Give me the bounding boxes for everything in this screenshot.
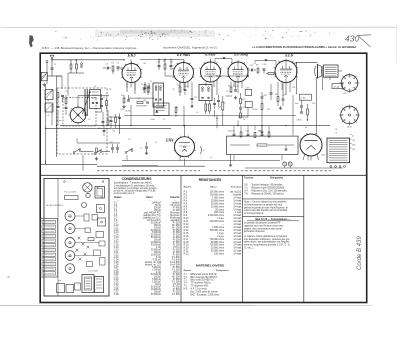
loudspeaker — [317, 64, 319, 79]
right block border — [303, 176, 305, 303]
switch resistor — [96, 148, 98, 152]
svg-text:C32: C32 — [259, 131, 262, 133]
svg-text:C.38: C.38 — [114, 294, 120, 296]
wire OT to socket area — [329, 77, 331, 80]
svg-text:R15: R15 — [228, 131, 231, 133]
svg-text:parleur reçoivent de notre Hau: parleur reçoivent de notre Haut Régence,… — [244, 206, 288, 209]
svg-text:PL accordéon: PL accordéon — [65, 192, 77, 194]
IF can 2 top view — [98, 218, 106, 226]
tube pin drop wires — [126, 83, 128, 89]
svg-text:1 meg.: 1 meg. — [217, 233, 224, 235]
svg-text:CM: CM — [143, 100, 146, 102]
tuning gang top view — [83, 183, 92, 192]
svg-text:grâphe, dont commutation pick-: grâphe, dont commutation pick-up par — [244, 227, 282, 230]
tube EF9 IF amplifier — [174, 63, 194, 83]
svg-text:C9: C9 — [103, 97, 105, 99]
top bus antenna to EK3 — [69, 59, 124, 61]
wire switch down — [82, 155, 84, 171]
svg-text:1/4 watt: 1/4 watt — [233, 202, 241, 205]
svg-text:Corde B 439: Corde B 439 — [357, 236, 363, 270]
svg-text:R9: R9 — [256, 65, 258, 67]
AVC diode wire — [204, 75, 248, 77]
heater drop wires — [126, 155, 128, 161]
junction dots — [130, 125, 131, 126]
svg-text:1/2 watt: 1/2 watt — [233, 250, 241, 253]
bottom left caps cluster — [110, 119, 113, 121]
svg-text:R.21: R.21 — [184, 251, 190, 253]
svg-text:EF9mq: EF9mq — [233, 52, 248, 57]
valve socket top view M25 — [341, 106, 359, 124]
svg-text:C29: C29 — [312, 103, 315, 105]
margin speck — [8, 277, 10, 278]
svg-text:La position de parcours (rotat: La position de parcours (rotation) PF — [244, 222, 281, 225]
svg-text:C31: C31 — [246, 131, 249, 133]
svg-text:au sol ée , la facture d'équip: au sol ée , la facture d'équip pour F et… — [114, 189, 157, 192]
svg-text:EL6: EL6 — [284, 53, 294, 58]
svg-text:EF9bis: EF9bis — [176, 52, 190, 57]
tube socket EM4 top — [65, 211, 75, 221]
svg-text:O., etc...).: O., etc...). — [244, 246, 254, 249]
svg-text:R.14: R.14 — [184, 230, 190, 232]
mains terminals — [330, 166, 332, 168]
socket heater box — [332, 84, 343, 89]
svg-text:T.F moyenne 455: T.F moyenne 455 — [191, 286, 209, 288]
pickup caps — [111, 147, 114, 149]
speaker chassis — [95, 277, 104, 293]
svg-text:1/4 watt: 1/4 watt — [233, 208, 241, 211]
small box 1 — [57, 284, 65, 293]
svg-text:Désignation: Désignation — [216, 269, 229, 272]
svg-text:C1: C1 — [54, 64, 56, 66]
oscillator coil cans hatched — [45, 90, 53, 100]
svg-text:Réponse du 50%A1, 230 périod.: Réponse du 50%A1, 230 périod. — [252, 192, 285, 195]
EL6 grid leak — [261, 96, 264, 98]
svg-text:1/4 watt: 1/4 watt — [233, 197, 241, 200]
svg-text:perforation observée.: perforation observée. — [244, 230, 266, 233]
wire EL6 anode to output transformer — [293, 62, 297, 65]
connector strip outline — [40, 219, 58, 278]
svg-text:Puissance: Puissance — [231, 187, 243, 189]
cluster below oscillator — [102, 120, 105, 122]
svg-text:700.000 ohms: 700.000 ohms — [210, 245, 225, 247]
wave switch 3 — [125, 152, 127, 154]
svg-text:R1: R1 — [112, 63, 114, 65]
svg-text:50.000 ohms: 50.000 ohms — [211, 203, 225, 205]
vertical EL6 down — [285, 82, 287, 95]
tuner block outline — [57, 88, 107, 154]
svg-text:1/4 watt: 1/4 watt — [233, 226, 241, 229]
tube socket EF9b top — [65, 264, 75, 274]
svg-text:Spécifications : T annulée aux: Spécifications : T annulée aux tolér/C — [114, 182, 152, 185]
parts below osc — [103, 129, 106, 131]
long vertical left 2 — [56, 76, 58, 157]
table divider 1 — [180, 176, 182, 303]
svg-text:0,1: 0,1 — [138, 98, 141, 100]
svg-text:P 1.500: P 1.500 — [172, 294, 180, 296]
svg-text:trois disposition inférieures,: trois disposition inférieures, verticaux… — [244, 238, 290, 241]
top link EF9b to EL6 — [255, 60, 276, 62]
IF transformer T4 — [153, 83, 164, 107]
vertical right 2 — [321, 66, 323, 90]
svg-text:tel correspondant à.: tel correspondant à. — [244, 212, 264, 215]
svg-text:CP 60: CP 60 — [297, 120, 302, 122]
svg-text:L4: L4 — [47, 115, 49, 117]
ground bus left — [41, 163, 98, 165]
ground antenna — [43, 83, 45, 85]
svg-text:R.B.C. — 148, Boulevard Agency: R.B.C. — 148, Boulevard Agency, 1er — Do… — [42, 46, 137, 50]
svg-text:1 électrolytiques D, périmètre: 1 électrolytiques D, périmètres, 50 rési… — [114, 184, 155, 187]
svg-text:130: 130 — [352, 145, 355, 147]
svg-text:7 6: 7 6 — [335, 133, 338, 135]
EL6 cathode cluster — [277, 97, 279, 102]
svg-text:0,5: 0,5 — [196, 112, 199, 114]
svg-text:« LA DOCUMENTATION DU RADIOELE: « LA DOCUMENTATION DU RADIOELECTRICIEN-G… — [252, 45, 356, 49]
svg-text:Bloc d'accord 252-455-P.O.: Bloc d'accord 252-455-P.O. — [191, 276, 219, 279]
svg-text:1/4 watt: 1/4 watt — [233, 223, 241, 226]
svg-text:100.000 ohms: 100.000 ohms — [210, 195, 225, 197]
svg-text:Pu: Pu — [210, 157, 212, 159]
svg-text:50.000 pF: 50.000 pF — [151, 294, 162, 296]
svg-text:RESISTANCES: RESISTANCES — [199, 178, 221, 182]
osc components left — [57, 93, 59, 98]
svg-text:C11: C11 — [112, 131, 115, 133]
left column resistor chain — [65, 99, 67, 104]
svg-text:Valeur: Valeur — [210, 187, 217, 189]
extra wires left — [61, 76, 63, 89]
wire EL6 screen — [296, 63, 298, 94]
svg-text:4V 2A: 4V 2A — [334, 85, 340, 88]
page top edge — [1, 26, 397, 28]
wave switch 1 — [73, 152, 75, 154]
svg-text:MC ACCORDEON: MC ACCORDEON — [47, 204, 64, 207]
svg-text:430: 430 — [345, 34, 359, 44]
coupling boxes — [245, 89, 252, 95]
svg-text:R.12: R.12 — [184, 224, 190, 226]
brace right of EM4 — [201, 146, 202, 154]
svg-text:30.000 ohms: 30.000 ohms — [211, 200, 225, 202]
left vertical wire 3 — [51, 104, 53, 126]
wave switch 2 — [94, 153, 96, 155]
svg-text:1/4 watt: 1/4 watt — [233, 253, 241, 256]
svg-text:MATERIEL DIVERS: MATERIEL DIVERS — [196, 264, 224, 268]
svg-text:5.000: 5.000 — [150, 119, 155, 121]
svg-text:R14: R14 — [121, 109, 124, 111]
svg-text:L1: L1 — [70, 60, 72, 62]
svg-text:0v: 0v — [352, 136, 354, 138]
svg-text:C24: C24 — [250, 65, 253, 67]
svg-text:C27: C27 — [282, 95, 285, 97]
svg-text:R.17: R.17 — [184, 239, 190, 241]
top bus EK3 to EF9 — [140, 59, 184, 61]
svg-text:C20: C20 — [184, 86, 187, 88]
svg-text:R12: R12 — [275, 94, 278, 96]
svg-text:1.000 ohms: 1.000 ohms — [212, 227, 225, 229]
svg-text:H.P. 21 cm excit.: H.P. 21 cm excit. — [191, 288, 208, 291]
main frame — [40, 53, 367, 302]
svg-text:R.20: R.20 — [184, 248, 190, 250]
ground power box — [230, 163, 232, 165]
svg-text:2.000.000 ohms: 2.000.000 ohms — [208, 215, 225, 217]
svg-text:Touches: Touches — [244, 177, 254, 179]
svg-text:EAB1: EAB1 — [204, 52, 216, 57]
ground EK3 — [123, 105, 125, 107]
svg-text:R.18: R.18 — [184, 242, 190, 244]
tuning capacitor symbol — [84, 89, 86, 116]
svg-text:EM4: EM4 — [68, 216, 72, 218]
svg-text:EXC - Excitation 1.250 ohms: EXC - Excitation 1.250 ohms — [191, 293, 221, 296]
svg-text:1/4 watt: 1/4 watt — [233, 199, 241, 202]
EK3 cathode resistor — [123, 98, 125, 103]
svg-text:R.13: R.13 — [184, 227, 190, 229]
tone capacitor cluster — [270, 92, 273, 94]
svg-text:700.000 ohms: 700.000 ohms — [210, 239, 225, 241]
small box 3 — [75, 283, 81, 290]
screen cluster between EK3 and EF9 — [158, 64, 161, 66]
IF trimmer box — [154, 103, 169, 116]
mid vertical drops — [216, 115, 218, 128]
svg-text:R7: R7 — [228, 86, 230, 88]
svg-text:C26: C26 — [246, 87, 249, 89]
bus anode mid — [124, 115, 296, 117]
svg-text:Mod 72-73 — Commutateurs —: Mod 72-73 — Commutateurs — — [255, 218, 291, 221]
oscillator box — [90, 90, 101, 109]
svg-text:du fonctionnement re-calculé a: du fonctionnement re-calculé aux haut — [244, 203, 283, 206]
svg-text:Imprimerie CHASSEL, Argenteuil: Imprimerie CHASSEL, Argenteuil (S.-et-O.… — [163, 46, 217, 50]
svg-text:bobélite: bobélite — [233, 194, 242, 197]
svg-text:EK3: EK3 — [126, 53, 136, 58]
scanner noise blob — [29, 35, 34, 48]
switch wires — [81, 151, 94, 153]
svg-text:1/4 watt: 1/4 watt — [233, 235, 241, 238]
svg-text:rapportée aux trois l'horizon: rapportée aux trois l'horizon à son baro… — [244, 224, 284, 227]
output transformer chassis — [82, 275, 94, 293]
svg-text:Réponse à Osc. G.M. 230 périod: Réponse à Osc. G.M. 230 périodes, — [252, 189, 288, 192]
tuning indicator EM4 — [175, 137, 195, 157]
svg-text:R.16: R.16 — [184, 236, 190, 238]
table divider 2 — [242, 176, 244, 303]
ground switch — [96, 157, 98, 159]
power box inner — [230, 144, 250, 146]
svg-text:R.11: R.11 — [184, 221, 189, 223]
cluster under EF9b — [230, 87, 232, 92]
svg-text:C.V. 2x490: C.V. 2x490 — [89, 271, 98, 273]
long vertical left 1 — [45, 85, 47, 165]
svg-text:T.F moyenne 455 kc: T.F moyenne 455 kc — [191, 283, 212, 285]
svg-text:100.000 ohms: 100.000 ohms — [210, 192, 225, 194]
drive pulley — [86, 193, 90, 197]
svg-text:50.000 ohms: 50.000 ohms — [211, 242, 225, 244]
right of osc vertical — [119, 114, 121, 135]
padder caps — [100, 97, 103, 99]
svg-text:220: 220 — [352, 149, 355, 151]
svg-text:20.000: 20.000 — [125, 111, 131, 113]
svg-text:R.22: R.22 — [184, 254, 190, 256]
svg-text:300 ohms: 300 ohms — [214, 212, 225, 214]
svg-text:1 meg.: 1 meg. — [217, 218, 224, 220]
output transformer — [324, 65, 339, 77]
svg-text:1 watt: 1 watt — [235, 211, 241, 214]
svg-text:10.000: 10.000 — [252, 109, 258, 111]
svg-text:10.000 ohms: 10.000 ohms — [211, 248, 225, 250]
volume potentiometer — [222, 102, 224, 110]
antenna — [50, 55, 54, 59]
dial escutcheon — [65, 196, 79, 200]
svg-text:1/4 watt: 1/4 watt — [233, 247, 241, 250]
power section box — [227, 136, 299, 154]
EF9 cathode cap and ground — [191, 97, 194, 99]
bus HT long — [60, 125, 330, 127]
svg-text:C10: C10 — [98, 128, 101, 130]
svg-text:7 8: 7 8 — [335, 129, 338, 131]
svg-text:C22: C22 — [235, 86, 238, 88]
svg-text:1/4 watt: 1/4 watt — [233, 205, 241, 208]
power box feed drops — [233, 126, 235, 130]
power transformer — [327, 138, 350, 163]
svg-text:1/4 watt: 1/4 watt — [233, 238, 241, 241]
svg-text:T4: T4 — [150, 81, 152, 83]
resistor strips — [88, 238, 94, 241]
svg-text:EK3: EK3 — [68, 229, 71, 231]
svg-text:osc: osc — [59, 120, 62, 122]
wire — [57, 75, 63, 77]
EL6 right column boxed label — [299, 94, 311, 100]
osc resistor — [106, 101, 108, 106]
tube top stubs — [130, 60, 132, 65]
svg-text:T5: T5 — [163, 119, 165, 121]
tube socket EAB1 top — [65, 251, 75, 261]
diode load resistors — [205, 104, 207, 111]
svg-text:50 ohms: 50 ohms — [215, 209, 225, 211]
svg-text:110: 110 — [352, 140, 355, 142]
top link EAB1 to EF9b — [215, 58, 232, 60]
page right edge — [396, 27, 398, 62]
svg-text:C3: C3 — [106, 64, 108, 66]
dashed chassis line — [97, 170, 200, 172]
rule under nota — [243, 216, 304, 218]
svg-text:C8: C8 — [109, 89, 111, 91]
tube EF9 AF amplifier — [228, 62, 248, 82]
svg-text:H.P.: H.P. — [184, 289, 188, 291]
IF can 1 top view — [97, 205, 105, 213]
svg-text:EF9: EF9 — [68, 243, 71, 245]
svg-text:2 meg.: 2 meg. — [217, 236, 224, 238]
antenna coil (hatched can) — [41, 72, 47, 80]
wire EM4 to bus — [184, 126, 186, 137]
tube EK3 mixer — [122, 64, 141, 83]
small box 2 — [66, 285, 74, 293]
scanner noise speckles — [95, 31, 215, 38]
svg-text:C21: C21 — [194, 97, 197, 99]
power box top extra — [261, 133, 264, 135]
connector strip cells — [42, 220, 56, 223]
svg-text:C18: C18 — [157, 62, 160, 64]
rule under touches — [243, 198, 304, 200]
grid cluster before EK3 — [106, 67, 108, 70]
wire osc to EK3 — [77, 96, 79, 108]
chassis inner divider — [57, 179, 59, 297]
coupling cap with ground mid — [145, 146, 148, 148]
svg-text:raires neuve, aux automatisati: raires neuve, aux automatisation sur Rég… — [244, 241, 290, 244]
tube socket EF9 top — [65, 238, 75, 248]
antenna terminal — [46, 61, 48, 63]
svg-text:100.000 ohms: 100.000 ohms — [210, 221, 225, 223]
svg-text:1.000 ohms: 1.000 ohms — [212, 198, 225, 200]
power transformer top view — [95, 187, 105, 199]
svg-text:50.000 ohms: 50.000 ohms — [211, 251, 225, 253]
svg-text:50: 50 — [243, 119, 245, 121]
svg-text:et de tension pour C.: et de tension pour C. — [114, 192, 136, 195]
svg-text:1/4 watt: 1/4 watt — [233, 241, 241, 244]
svg-text:entre les récupérateurs (prend: entre les récupérateurs (prendre C.G.P.,… — [244, 244, 291, 247]
IF transformer T5 — [199, 85, 212, 101]
svg-text:Repère: Repère — [184, 270, 192, 272]
screen feed wires — [164, 72, 166, 77]
svg-text:C4: C4 — [117, 63, 119, 65]
svg-text:C 402: C 402 — [301, 98, 307, 100]
svg-text:Réponse à gris 520/562/262/566: Réponse à gris 520/562/262/566, — [252, 186, 286, 189]
tube EAB1 detector — [201, 62, 221, 82]
pilot lamp 2 — [288, 162, 292, 166]
wire antenna to band coils — [51, 74, 53, 77]
svg-text:1/4 watt: 1/4 watt — [233, 232, 241, 235]
svg-text:R11: R11 — [264, 95, 267, 97]
svg-text:EM4: EM4 — [165, 139, 174, 143]
vertical right 1 — [315, 77, 317, 135]
svg-text:C2: C2 — [226, 91, 228, 93]
svg-text:pot. log 1/2: pot. log 1/2 — [230, 191, 242, 194]
wire EM4 down — [184, 159, 186, 166]
detector caps — [213, 102, 216, 104]
svg-text:Nota — Ceux-ci s'abstint sur l: Nota — Ceux-ci s'abstint sur les présidé… — [244, 201, 287, 204]
osc output wire — [77, 142, 120, 144]
svg-text:C7: C7 — [141, 84, 143, 86]
svg-text:toute l'ensemble fonction part: toute l'ensemble fonction part et l'ense… — [244, 209, 288, 212]
svg-text:Repère: Repère — [184, 187, 192, 189]
chassis top screws — [64, 181, 66, 183]
svg-text:25.000 ohms: 25.000 ohms — [211, 206, 225, 208]
rectifier tube — [300, 134, 322, 156]
oscillator socket circle — [70, 107, 86, 123]
svg-text:R.10: R.10 — [184, 218, 190, 220]
cluster under EF9 — [179, 87, 181, 92]
svg-text:Touche d'attaque : 50 périodes: Touche d'attaque : 50 périodes, — [252, 183, 284, 186]
svg-text:C25: C25 — [263, 64, 266, 66]
svg-text:1/4 watt: 1/4 watt — [233, 244, 241, 247]
extra wires detector area — [214, 110, 216, 117]
cluster under EK3 — [126, 82, 128, 92]
mains bottom wire — [245, 167, 343, 169]
svg-text:Bloc oscill 252-455-G.O.: Bloc oscill 252-455-G.O. — [191, 280, 216, 282]
svg-text:1/4 watt: 1/4 watt — [233, 217, 241, 220]
svg-text:C28: C28 — [292, 87, 295, 89]
extra wires osc — [95, 111, 102, 113]
chassis wires — [75, 215, 84, 217]
svg-text:C5: C5 — [65, 91, 67, 93]
svg-text:R.15: R.15 — [184, 233, 190, 235]
svg-text:1/4 watt: 1/4 watt — [233, 220, 241, 223]
power box components — [233, 133, 236, 135]
pilot lamp 1 — [283, 162, 287, 166]
heater bus — [122, 160, 280, 162]
svg-text:Le Glace le Canné grândiose à: Le Glace le Canné grândiose à col poigné… — [244, 235, 288, 238]
svg-text:C6: C6 — [94, 86, 96, 88]
vertical wires tubes to HT bus — [130, 105, 132, 126]
svg-text:R13: R13 — [267, 109, 270, 111]
svg-text:C17: C17 — [172, 89, 175, 91]
coupling cluster EF9b to EL6 — [250, 69, 252, 72]
svg-text:C12: C12 — [128, 139, 131, 141]
svg-text:L3: L3 — [47, 100, 49, 102]
